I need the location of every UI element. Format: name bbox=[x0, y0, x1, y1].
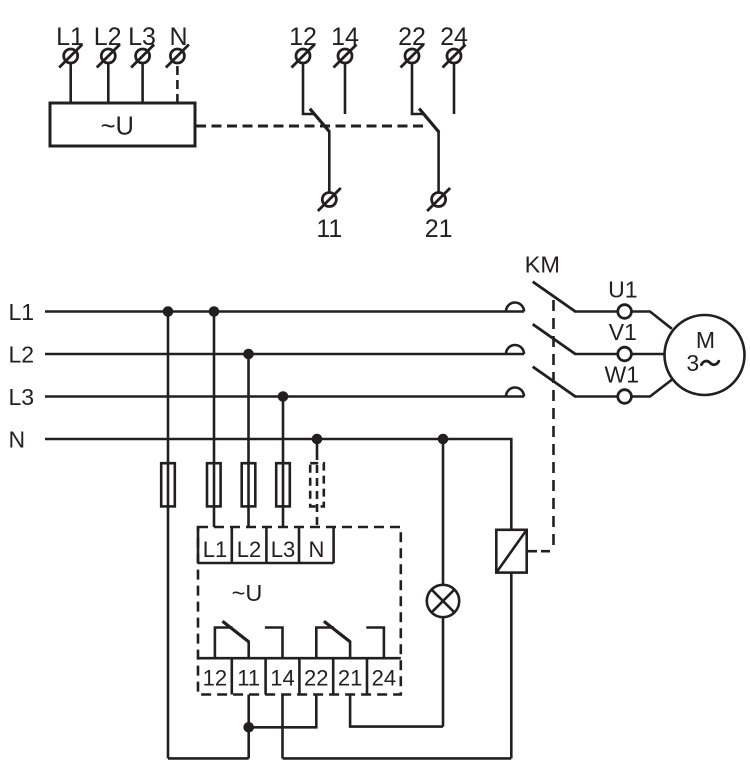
wire L2 to box bbox=[107, 63, 110, 103]
terminal N (top) bbox=[166, 23, 189, 68]
wire blade to 21 bbox=[437, 131, 440, 193]
terminal 22 (top) bbox=[398, 23, 426, 68]
relay voltage box U1 (~U) bbox=[50, 103, 195, 146]
contactor contact L3 bbox=[506, 388, 524, 397]
fuse F1 bbox=[161, 463, 175, 506]
fuse F2 bbox=[207, 463, 221, 506]
bottom wire 14 to coil bbox=[283, 757, 512, 760]
coil-contact mechanical link (dashed) bbox=[527, 300, 554, 551]
terminal L3 (top) bbox=[128, 23, 156, 68]
wire V1 to motor bbox=[631, 353, 665, 356]
svg-text:W1: W1 bbox=[605, 362, 640, 388]
wire L1 to box bbox=[69, 63, 72, 103]
wire L1 to relay terminal L1 bbox=[213, 312, 216, 528]
bottom wire L1-feed to 11 bbox=[168, 757, 249, 760]
node on N (x=443) bbox=[439, 435, 447, 443]
svg-text:L3: L3 bbox=[271, 537, 295, 562]
contactor coil KM bbox=[496, 530, 526, 573]
svg-text:N: N bbox=[309, 537, 325, 562]
terminal 12 (top) bbox=[289, 23, 317, 68]
terminal 14 (top) bbox=[331, 23, 359, 68]
wire U1 to motor bbox=[631, 312, 672, 329]
neutral line N bbox=[45, 439, 511, 530]
svg-text:~U: ~U bbox=[101, 112, 134, 140]
svg-text:12: 12 bbox=[203, 665, 227, 690]
node on L3 bbox=[279, 393, 287, 401]
wire 24 fixed contact bbox=[453, 63, 456, 114]
terminal W1 bbox=[618, 390, 632, 404]
svg-text:21: 21 bbox=[338, 665, 362, 690]
wire W1 to motor bbox=[631, 380, 672, 397]
terminal U1 bbox=[618, 305, 632, 319]
contactor blade L1 bbox=[533, 282, 576, 312]
wire 14 fixed contact bbox=[344, 63, 347, 114]
terminal L2 (top) bbox=[94, 23, 122, 68]
wire N to relay terminal N (dashed) bbox=[316, 439, 319, 452]
svg-text:V1: V1 bbox=[609, 319, 637, 345]
node on L1 (x=214) bbox=[210, 308, 218, 316]
relay input terminal row L1 L2 L3 N bbox=[198, 527, 334, 563]
terminal 21 (top) bbox=[425, 188, 453, 243]
contact blade 22-21 bbox=[419, 109, 439, 132]
relay contact blade 21-22 bbox=[324, 621, 350, 642]
contactor contact L1 bbox=[506, 303, 524, 312]
wire terminal 14 down bbox=[281, 695, 284, 759]
wire lamp down bbox=[442, 617, 445, 726]
svg-text:14: 14 bbox=[270, 665, 294, 690]
phase line L2 bbox=[45, 353, 524, 356]
relay output terminal row 12 11 14 22 21 24 bbox=[198, 658, 401, 694]
svg-text:21: 21 bbox=[425, 215, 453, 243]
contact blade 12-11 bbox=[310, 109, 330, 132]
terminal 24 (top) bbox=[440, 23, 468, 68]
contactor blade L2 bbox=[533, 324, 576, 354]
wire blade to terminal 11 bbox=[247, 641, 250, 658]
svg-text:U1: U1 bbox=[608, 277, 637, 303]
relay contact 12 fixed foot bbox=[215, 628, 233, 659]
terminal V1 bbox=[618, 347, 632, 361]
phase line L1 bbox=[45, 310, 524, 313]
svg-text:L2: L2 bbox=[9, 341, 35, 367]
terminal L1 (top) bbox=[56, 23, 84, 68]
node on L2 bbox=[245, 350, 253, 358]
fuse F5 (dashed, neutral) bbox=[310, 463, 324, 506]
wire N to lamp bbox=[442, 439, 445, 585]
wire 12 fixed contact bbox=[303, 63, 315, 114]
relay contact 22 fixed foot bbox=[316, 628, 334, 659]
lamp HL bbox=[427, 585, 459, 617]
node junction 11 jumper bbox=[245, 723, 253, 731]
svg-text:L1: L1 bbox=[9, 299, 35, 325]
wire blade to W1 bbox=[574, 395, 618, 398]
wire coil down bbox=[510, 573, 513, 759]
fuse F4 bbox=[276, 463, 290, 506]
node on N (x=317) bbox=[313, 435, 321, 443]
phase line L3 bbox=[45, 395, 524, 398]
jumper wire 11 to 22 bbox=[249, 695, 317, 728]
wire blade to terminal 21 bbox=[349, 641, 352, 658]
relay device dashed enclosure bbox=[198, 527, 401, 695]
wire L2 to relay terminal L2 bbox=[247, 354, 250, 527]
wire L3 to box bbox=[141, 63, 144, 103]
wire terminal 11 down bbox=[247, 695, 250, 759]
relay contact 24 fixed foot bbox=[366, 628, 384, 659]
svg-text:KM: KM bbox=[525, 252, 560, 278]
wire L1 down to bottom (through fuse F1) bbox=[167, 312, 170, 759]
svg-text:3: 3 bbox=[686, 350, 699, 376]
relay contact 14 fixed foot bbox=[265, 628, 283, 659]
svg-text:11: 11 bbox=[237, 665, 260, 690]
wire N to box (dashed) bbox=[176, 66, 179, 103]
relay contact blade 11-12 bbox=[223, 621, 249, 642]
svg-text:22: 22 bbox=[304, 665, 328, 690]
wire terminal 21 to lamp bbox=[350, 695, 443, 727]
svg-text:L2: L2 bbox=[237, 537, 261, 562]
contactor contact L2 bbox=[506, 345, 524, 354]
svg-text:11: 11 bbox=[316, 215, 342, 243]
wire blade to 11 bbox=[328, 131, 331, 193]
svg-text:L1: L1 bbox=[203, 537, 227, 562]
wire blade to V1 bbox=[574, 353, 618, 356]
motor M 3~ bbox=[665, 315, 745, 395]
contactor blade L3 bbox=[533, 367, 576, 397]
svg-text:L3: L3 bbox=[9, 384, 35, 410]
wire 22 fixed contact bbox=[412, 63, 424, 114]
svg-text:~U: ~U bbox=[232, 580, 263, 606]
terminal 11 (top) bbox=[316, 188, 342, 243]
fuse F3 bbox=[242, 463, 256, 506]
node on L1 (x=168) bbox=[164, 308, 172, 316]
svg-text:N: N bbox=[9, 426, 26, 452]
svg-text:24: 24 bbox=[372, 665, 396, 690]
wire blade to U1 bbox=[574, 310, 618, 313]
wire L3 to relay terminal L3 bbox=[282, 397, 285, 528]
actuator link (dashed) bbox=[196, 125, 428, 128]
